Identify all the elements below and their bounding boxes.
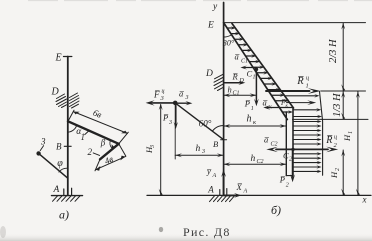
svg-text:h: h [196, 144, 201, 154]
svg-text:2: 2 [289, 156, 292, 162]
svg-text:A: A [212, 173, 217, 179]
svg-text:R̅: R̅ [296, 76, 304, 87]
scan artifact top edge [28, 0, 372, 2]
dimension h_C1 (fig b) [224, 94, 257, 96]
svg-text:A: A [207, 185, 214, 195]
angle phi arc (fig a) [59, 168, 68, 172]
dimension 4v line (fig a) [95, 144, 126, 171]
weight P2 arrow (fig b) [292, 151, 294, 177]
slider support D hatching right (fig a) [70, 93, 80, 108]
svg-text:h: h [228, 85, 232, 95]
svg-text:β: β [100, 138, 106, 148]
thin extension line right of R1 (fig b) [321, 90, 366, 92]
rod 2 bar left edge (fig b) [285, 112, 287, 176]
svg-text:3: 3 [168, 120, 172, 126]
reaction Y_A arrow (fig b) [223, 174, 225, 195]
angle beta arc with arrow (fig a) [110, 140, 112, 148]
ground line at A (fig a) [52, 195, 83, 197]
svg-text:ц: ц [334, 135, 337, 141]
svg-text:R̅: R̅ [325, 135, 333, 146]
leader to rod 1 label (fig a) [85, 131, 89, 135]
ground hatching at A (fig b) [210, 196, 235, 202]
svg-text:y: y [212, 2, 218, 12]
mass point C1 (fig b) [255, 68, 259, 72]
svg-text:60°: 60° [199, 118, 212, 128]
ground hatching at A (fig a) [53, 196, 81, 201]
dimension h_C2 (fig b) [224, 163, 287, 165]
svg-text:R̅: R̅ [232, 72, 239, 82]
svg-text:к: к [269, 105, 272, 111]
angle 30 deg arc (fig b) [224, 35, 232, 37]
svg-text:1/3 H: 1/3 H [332, 92, 343, 117]
dimension H3 vertical (fig b) [160, 105, 162, 196]
acceleration a_3 arrow (fig b) [178, 102, 190, 104]
svg-text:1: 1 [81, 132, 86, 142]
resultant R2 arrow (fig b) [293, 148, 328, 150]
svg-text:C1: C1 [241, 59, 248, 65]
dimension h_K (fig b) [224, 125, 287, 127]
svg-text:1: 1 [251, 106, 254, 112]
svg-text:2: 2 [286, 182, 289, 188]
node E tick (fig a) [64, 56, 72, 58]
inertia force F_K arrow (fig b) [287, 102, 313, 104]
dimension 6v line (fig a) [68, 110, 128, 144]
dimension H1 vertical (fig b) [357, 92, 359, 195]
svg-text:C2: C2 [271, 141, 278, 147]
reaction X_A arrow (fig b) [224, 194, 237, 196]
svg-text:F̅: F̅ [153, 90, 160, 100]
load envelope line (fig b) [320, 92, 323, 176]
clamp support A prongs (fig b) [219, 190, 221, 196]
column AE (fig a) [67, 57, 69, 196]
svg-text:x: x [362, 195, 367, 205]
ball 3 (fig b) [173, 101, 178, 106]
leader to ball 3 label (fig a) [40, 146, 43, 151]
acceleration a_C2 arrow (fig b) [276, 148, 293, 150]
svg-text:D: D [239, 78, 245, 84]
rod 2 bar right edge (fig b) [292, 108, 294, 176]
svg-text:2: 2 [335, 168, 341, 171]
angle alpha arc (fig a) [68, 125, 77, 132]
x axis line (fig b) [147, 194, 371, 196]
weight ball 3 (fig a) [36, 151, 40, 155]
svg-text:A: A [243, 188, 248, 194]
angle 60 deg arc (fig b) [212, 125, 223, 131]
resultant R1 arrow (fig b) [266, 90, 310, 92]
node B tick (fig b) [221, 139, 227, 141]
rod 1 bar right edge (fig b) [232, 24, 294, 109]
svg-text:ц: ц [162, 89, 165, 95]
top reference line from E (fig b) [224, 22, 366, 24]
svg-text:Рис. Д8: Рис. Д8 [183, 225, 231, 239]
svg-text:H: H [342, 134, 352, 142]
svg-text:2: 2 [88, 147, 93, 157]
svg-text:D: D [51, 87, 60, 98]
leader to rod 2 label (fig a) [93, 153, 99, 156]
svg-text:H: H [329, 171, 339, 179]
svg-text:h: h [251, 154, 256, 164]
weight P1 arrow (fig b) [255, 71, 257, 102]
slider support D hatching left (fig a) [56, 94, 67, 108]
rod 3 with ball (fig a) [39, 153, 68, 178]
slider support D hatching (fig b) [214, 74, 223, 90]
weight P3 arrow (fig b) [175, 105, 177, 125]
mass point C2 (fig b) [291, 148, 294, 151]
rod 2 bar bottom cap (fig b) [286, 175, 293, 177]
svg-text:б): б) [271, 203, 281, 217]
svg-text:D: D [205, 69, 213, 79]
dimension H2 vertical (fig b) [342, 150, 344, 195]
dimension h3 (fig b) [175, 154, 223, 156]
node B tick (fig a) [64, 145, 71, 147]
svg-text:30°: 30° [222, 39, 235, 48]
svg-text:A: A [53, 185, 60, 195]
svg-text:3: 3 [201, 149, 205, 155]
svg-text:C1: C1 [233, 91, 240, 97]
svg-text:P̅: P̅ [279, 175, 286, 185]
svg-text:3: 3 [150, 145, 156, 149]
leader from ball 3 down to h3 (fig b) [174, 105, 176, 159]
svg-text:ц: ц [306, 76, 309, 82]
svg-text:3: 3 [185, 95, 189, 101]
clamp support A prongs (fig a) [63, 189, 65, 195]
acceleration a_C1 arrow (fig b) [244, 67, 257, 69]
svg-text:h: h [247, 114, 252, 125]
inertia force F3 arrow (fig b) [150, 102, 175, 104]
svg-text:3: 3 [40, 137, 46, 147]
scan smudge bottom left [159, 227, 163, 232]
svg-text:P̅: P̅ [162, 113, 169, 123]
svg-text:E: E [207, 20, 214, 30]
acceleration a_K arrow (fig b) [267, 107, 294, 109]
svg-text:1: 1 [306, 83, 309, 90]
svg-text:1: 1 [348, 131, 354, 134]
svg-text:P̅: P̅ [244, 99, 251, 109]
rod 1 bar left edge (fig b) [224, 23, 288, 120]
distributed load small arrows on rod 1 (fig b) [228, 26, 293, 114]
dimension 2/3 H vertical (fig b) [342, 23, 344, 90]
svg-text:а): а) [59, 208, 69, 222]
reaction R_D arrow (fig b) [224, 82, 241, 84]
svg-text:X̅: X̅ [236, 182, 243, 192]
rod 2 (fig a) [100, 144, 119, 160]
junction leader line (fig b) [293, 118, 369, 120]
svg-text:φ: φ [57, 158, 63, 169]
svg-text:1: 1 [253, 75, 256, 81]
dimension 1/3 H vertical (fig b) [342, 91, 344, 119]
rod 3 (fig b) [175, 103, 223, 140]
long load arrows lower rod1 (fig b) [285, 94, 322, 118]
svg-text:C2: C2 [257, 159, 264, 165]
rod 1 (fig a) [68, 121, 119, 144]
svg-text:B: B [213, 139, 218, 149]
svg-text:E: E [55, 52, 62, 63]
distributed load arrows rod 2 (fig b) [293, 120, 322, 174]
svg-text:2/3 H: 2/3 H [328, 38, 339, 63]
svg-text:B: B [56, 141, 62, 151]
y axis / column AE (fig b) [223, 3, 225, 196]
